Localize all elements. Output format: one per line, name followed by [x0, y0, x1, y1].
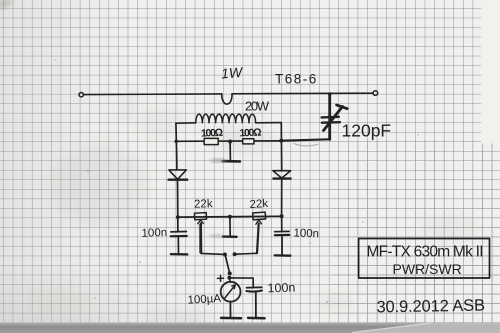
node left: [174, 140, 178, 144]
wire left vertical: [176, 123, 177, 170]
diode D2: [273, 171, 291, 178]
transformer T1 secondary 20 turns: [176, 122, 196, 124]
ground right cap: [275, 254, 291, 257]
potentiometer P2 wiper: [256, 220, 262, 225]
wire top rail right: [232, 92, 373, 95]
bottom edge shadow strip: [0, 323, 500, 333]
wire right vertical: [280, 123, 282, 171]
svg-text:1W: 1W: [221, 64, 245, 82]
node center tap: [228, 140, 232, 144]
ground meter cap: [248, 317, 265, 320]
diode D1: [169, 170, 186, 179]
input terminal (left): [79, 93, 83, 97]
capacitor C1 trimmer 120pF branch wire: [328, 94, 331, 139]
svg-text:120pF: 120pF: [342, 121, 392, 141]
title box: [359, 239, 490, 279]
paper corner cut bottom right: [352, 323, 500, 333]
node pot row center: [228, 215, 232, 219]
svg-text:100Ω: 100Ω: [201, 127, 223, 140]
wire potentiometer row: [178, 215, 282, 218]
plus sign: [217, 277, 223, 279]
potentiometer P1 wiper: [198, 220, 204, 224]
ground left cap: [171, 253, 188, 256]
ground meter: [221, 317, 241, 320]
noise specks: [54, 49, 434, 307]
svg-text:100n: 100n: [267, 280, 295, 295]
wire to meter cap: [231, 278, 254, 287]
wire resistor row: [176, 140, 281, 143]
svg-text:22k: 22k: [249, 198, 268, 211]
node right: [279, 139, 283, 143]
svg-text:PWR/SWR: PWR/SWR: [393, 261, 462, 277]
resistor R1 100ohm: [204, 138, 218, 144]
meter M1 100uA: [221, 282, 241, 302]
potentiometer P2 22k body: [253, 212, 266, 220]
capacitor C1 trimmer arrow: [324, 107, 343, 131]
capacitor C2 100n left: [177, 217, 179, 231]
stray pencil arc: [294, 144, 318, 146]
wire trimmer bottom to node: [281, 139, 330, 140]
svg-text:22k: 22k: [194, 198, 213, 211]
right paper margin (no grid, top right): [481, 0, 500, 144]
wire switch to meter: [229, 279, 232, 282]
svg-text:100n: 100n: [141, 227, 167, 240]
pencil smudges: [30, 89, 478, 324]
node trimmer/top rail junction: [328, 92, 332, 96]
svg-text:MF-TX 630m Mk II: MF-TX 630m Mk II: [367, 243, 484, 260]
svg-text:100µA: 100µA: [187, 293, 221, 307]
capacitor C4 100n meter: [247, 286, 262, 288]
switch S1 lever: [225, 256, 229, 273]
switch S1 contacts: [223, 253, 227, 257]
node pot row right: [280, 214, 284, 218]
potentiometer P1 22k body: [194, 213, 206, 220]
ground mid (below pot row center): [229, 217, 231, 236]
output terminal (right): [373, 91, 378, 96]
resistor R2 100ohm: [243, 139, 254, 144]
capacitor C3 100n right: [281, 216, 283, 231]
transformer T1 primary 1 turn: [222, 94, 232, 104]
svg-text:20W: 20W: [245, 99, 270, 114]
node pot row left: [176, 215, 180, 219]
svg-text:30.9.2012 ASB: 30.9.2012 ASB: [376, 297, 485, 317]
svg-text:T68-6: T68-6: [275, 72, 318, 87]
wire top rail left: [84, 93, 222, 96]
top-left corner shadow: [0, 0, 14, 10]
capacitor C1 plates: [322, 116, 339, 119]
svg-text:100Ω: 100Ω: [239, 127, 261, 140]
svg-text:100n: 100n: [293, 227, 319, 240]
ground center tap: [229, 142, 231, 161]
darker grid lower right: [332, 140, 500, 323]
